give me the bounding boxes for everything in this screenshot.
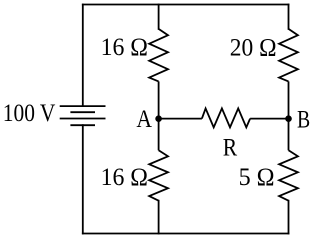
svg-text:20 Ω: 20 Ω [230,34,277,61]
wire left vertical upper (battery to top-left corner) [82,5,84,107]
svg-text:100 V: 100 V [3,100,56,127]
wire right branch bottom stub [288,201,290,234]
battery V1 100 V (plate long top) [60,105,106,107]
wire middle branch bottom stub [158,201,160,234]
wire top rail [83,4,289,6]
wire right branch node B down [288,119,290,151]
wire left vertical lower (battery to bottom-left corner) [82,125,84,233]
resistor 5 ohm zigzag [279,150,298,200]
svg-text:5 Ω: 5 Ω [239,164,275,191]
svg-text:16 Ω: 16 Ω [101,34,148,61]
resistor R zigzag [202,108,250,127]
resistor 20 ohm zigzag [279,29,298,82]
node A junction dot [155,115,162,122]
svg-text:R: R [223,135,238,162]
wire bottom rail [83,233,289,235]
resistor 16 ohm top zigzag [149,29,168,82]
wire middle branch top stub [158,5,160,29]
wire resistor R to node B [250,118,288,120]
wire middle branch node A down [158,119,160,151]
wire middle branch to node A [158,81,160,118]
battery V1 (plate long lower) [60,118,106,120]
svg-text:B: B [297,107,310,134]
wire right branch top stub [288,5,290,29]
battery V1 (plate short bottom) [70,124,95,126]
resistor 16 ohm bottom zigzag [149,150,168,200]
svg-text:A: A [136,106,152,133]
node B junction dot [285,115,292,122]
wire right branch to node B [288,81,290,118]
battery V1 (plate short) [70,111,95,113]
wire node A to resistor R [159,118,202,120]
svg-text:16 Ω: 16 Ω [101,164,148,191]
